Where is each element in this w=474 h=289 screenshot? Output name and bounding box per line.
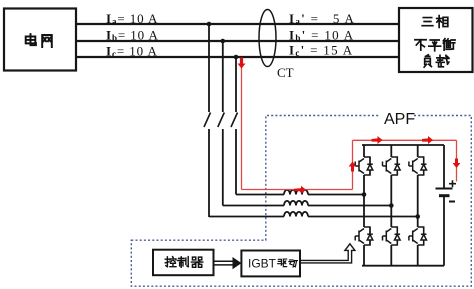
svg-text:APF: APF <box>384 111 415 128</box>
svg-text:CT: CT <box>277 65 294 80</box>
svg-text:IGBT: IGBT <box>248 257 277 271</box>
